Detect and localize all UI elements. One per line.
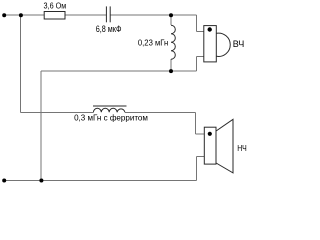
node junction bottom of L1 [169,69,173,73]
tweeter BЧ dome [216,33,230,56]
wire woofer bottom lead vertical [195,156,197,180]
tweeter polarity dot [208,27,212,31]
wire woofer top lead vertical [194,112,196,134]
wire top rail middle segment [65,14,106,16]
wire tweeter bottom lead horizontal [197,56,205,58]
wire tweeter bottom lead vertical [196,57,198,72]
wire tweeter return horizontal [41,70,196,72]
capacitor C1 6.8 uF right plate [109,6,111,22]
wire woofer branch horizontal to inductor [21,111,94,113]
woofer polarity dot [208,132,212,136]
capacitor C1 6.8 uF left plate [105,6,107,22]
svg-text:ВЧ: ВЧ [233,39,245,49]
inductor L1 0.23 mH coil arcs [171,25,175,59]
wire woofer bottom lead horizontal [196,155,204,157]
node junction bottom rail [39,179,43,183]
svg-text:НЧ: НЧ [237,143,247,153]
wire tweeter return vertical down [40,71,42,181]
input terminal bottom [2,179,6,183]
svg-text:6,8 мкФ: 6,8 мкФ [96,24,122,34]
wire woofer top lead horizontal [195,133,204,135]
wire inductor to woofer horizontal [125,111,195,113]
inductor L2 ferrite core bar [93,105,126,107]
inductor L2 0.3 mH coil arcs [93,108,125,112]
node junction top input [19,13,23,17]
tweeter BЧ body rectangle [204,26,217,62]
wire tweeter top lead vertical [196,15,198,31]
wire bottom rail [4,180,196,182]
woofer HЧ cone [216,119,233,173]
resistor R1 3.6 Ohm body [44,12,65,20]
wire inductor L1 top stub [170,15,172,25]
svg-text:0,23 мГн: 0,23 мГн [138,37,169,47]
woofer HЧ body rectangle [204,127,216,164]
node junction top at L1 [169,13,173,17]
input terminal top [2,13,6,17]
wire woofer branch vertical from input [20,15,22,112]
wire tweeter top lead horizontal [197,31,205,33]
wire inductor L1 bottom stub [170,59,172,71]
wire top rail right segment [110,14,196,16]
wire top rail left segment [4,14,44,16]
svg-text:3,6 Ом: 3,6 Ом [44,1,67,11]
svg-text:0,3 мГн с ферритом: 0,3 мГн с ферритом [74,113,148,122]
